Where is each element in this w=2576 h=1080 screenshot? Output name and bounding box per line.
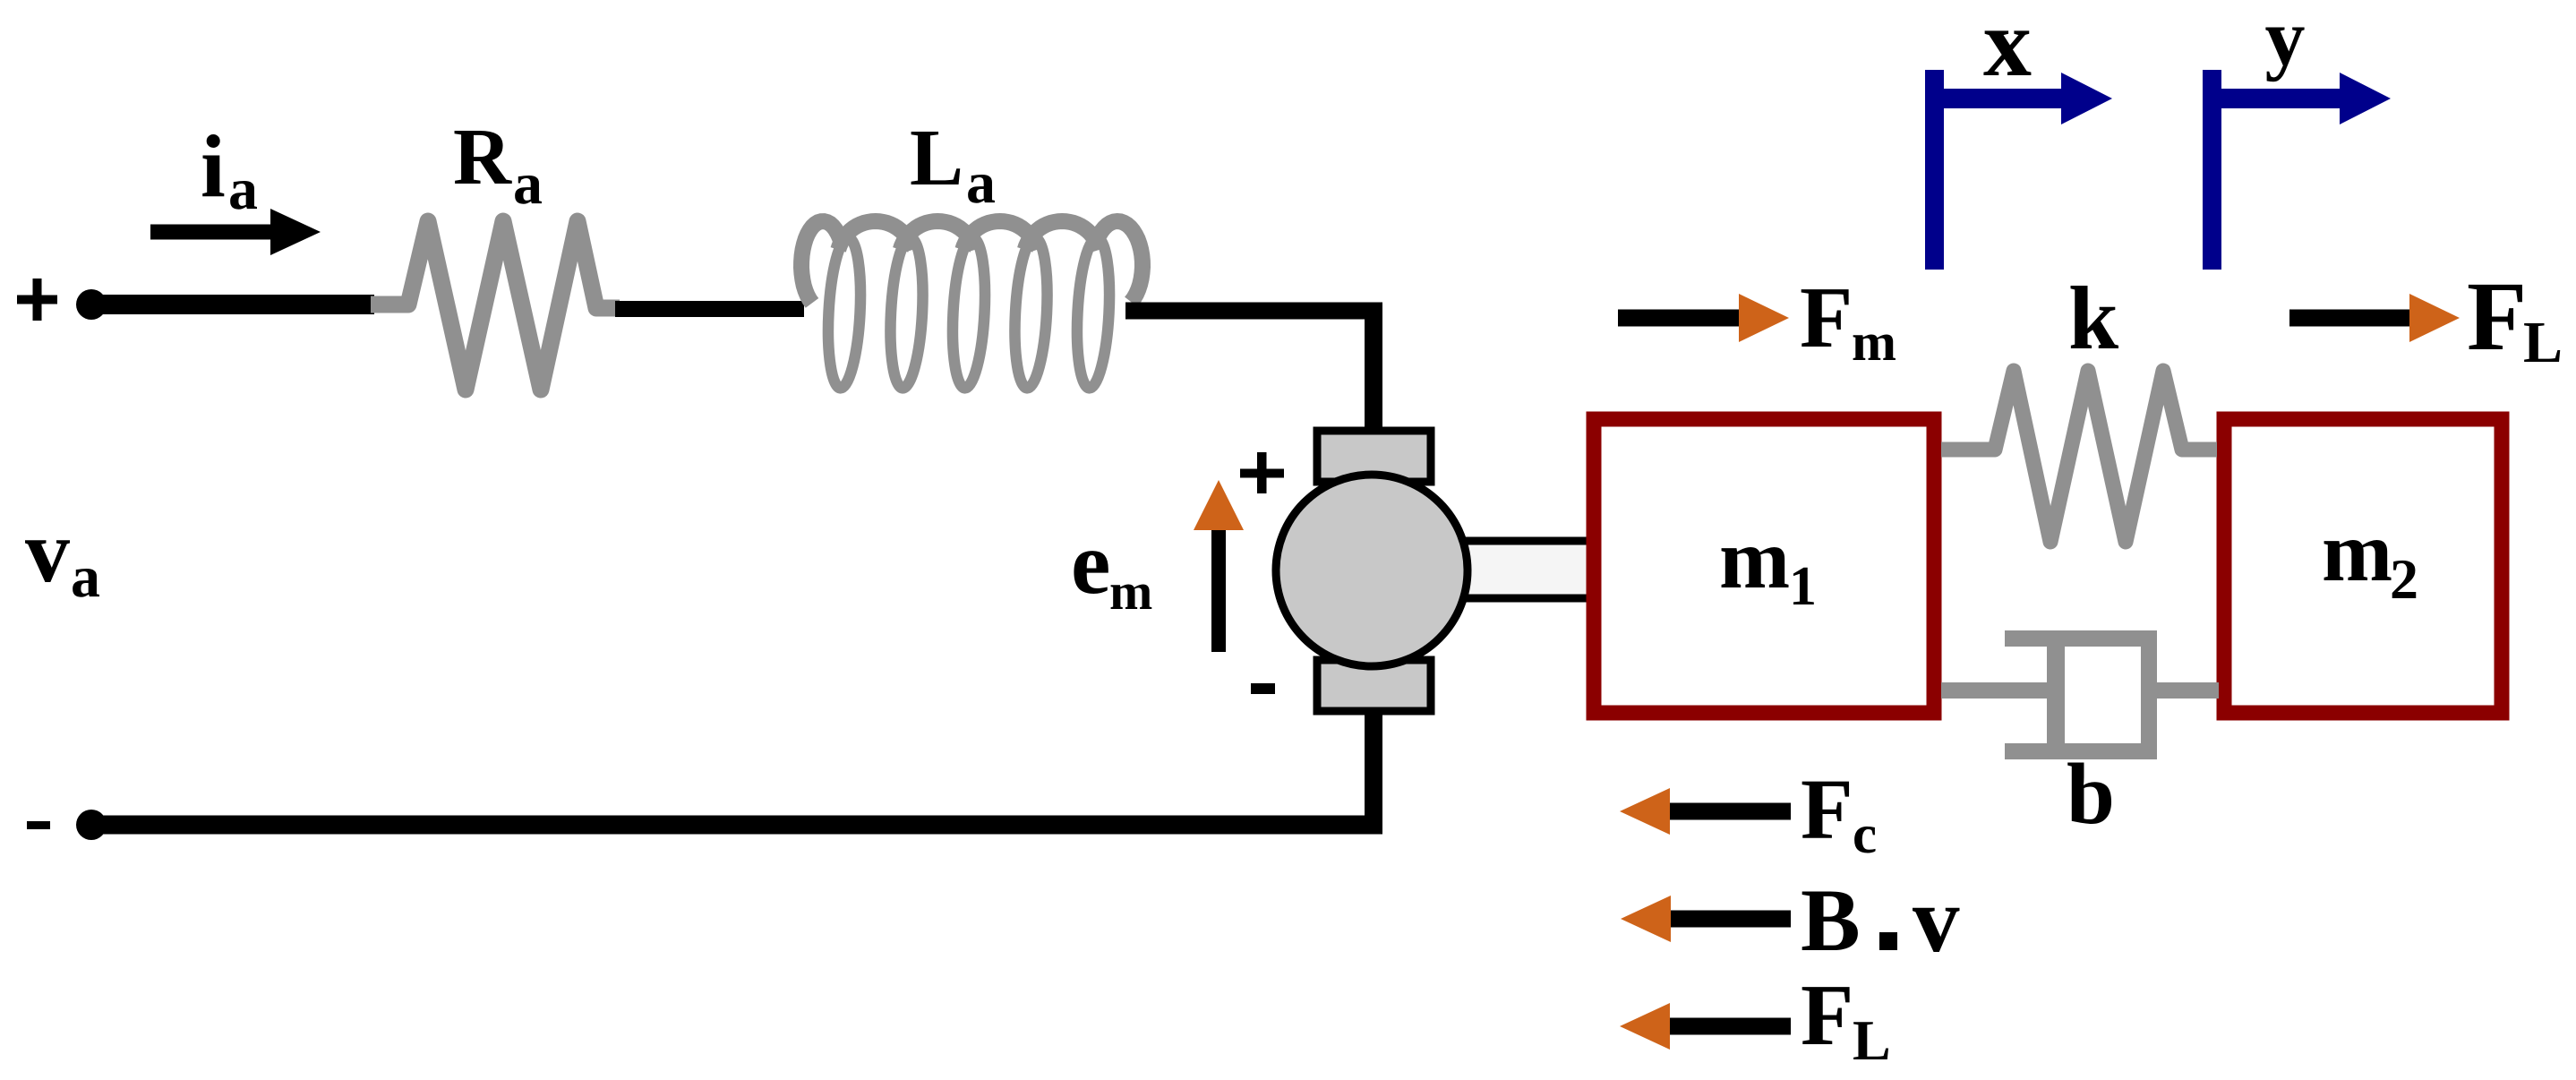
axis y xyxy=(2203,70,2391,270)
svg-text:a: a xyxy=(71,544,100,610)
damper b xyxy=(1941,630,2219,759)
svg-text:a: a xyxy=(228,157,258,222)
svg-text:2: 2 xyxy=(2390,547,2418,611)
svg-text:m: m xyxy=(1852,313,1896,372)
svg-text:a: a xyxy=(966,150,996,216)
motor body (motor M) xyxy=(1276,475,1468,666)
svg-text:m: m xyxy=(1109,562,1152,621)
svg-text:i: i xyxy=(201,116,226,216)
svg-text:v: v xyxy=(1913,867,1960,972)
motor top terminal block xyxy=(1317,431,1431,482)
svg-text:L: L xyxy=(1853,1008,1891,1072)
svg-text:F: F xyxy=(1801,967,1853,1063)
svg-text:B: B xyxy=(1801,870,1861,970)
axis x xyxy=(1925,70,2112,270)
svg-text:k: k xyxy=(2068,268,2119,368)
svg-text:L: L xyxy=(2523,310,2563,375)
svg-text:y: y xyxy=(2265,0,2306,82)
svg-text:e: e xyxy=(1071,513,1110,613)
node B (bottom-left terminal dot) xyxy=(76,810,107,840)
mass m1 xyxy=(1594,419,1934,713)
wire: motor bottom lead xyxy=(1365,711,1382,833)
emf arrow e_m xyxy=(1194,480,1244,652)
wire: corner down to motor xyxy=(1365,304,1382,430)
label minus (motor emf) xyxy=(1251,683,1275,694)
terminal minus label xyxy=(27,821,50,829)
terminal plus label xyxy=(17,279,57,321)
motor bottom terminal block xyxy=(1317,660,1431,711)
svg-text:a: a xyxy=(513,151,543,217)
svg-text:m: m xyxy=(2322,504,2392,599)
wire: from L_a to top-right corner xyxy=(1125,303,1382,320)
svg-text:L: L xyxy=(910,114,963,202)
mass m2 xyxy=(2224,419,2502,713)
svg-text:v: v xyxy=(25,501,70,601)
force arrow F_L (bottom) xyxy=(1620,1003,1791,1050)
svg-text:F: F xyxy=(2467,261,2527,371)
svg-text:F: F xyxy=(1800,270,1853,365)
svg-text:b: b xyxy=(2067,746,2115,842)
wire: between R_a and L_a xyxy=(615,301,804,317)
svg-text:F: F xyxy=(1801,761,1853,857)
bottom wire xyxy=(91,816,1382,835)
shaft from motor to m1 xyxy=(1459,544,1592,595)
spring k xyxy=(1941,371,2217,542)
node A (top-left terminal dot) xyxy=(76,289,107,320)
label plus (motor emf) xyxy=(1240,452,1284,493)
svg-text:1: 1 xyxy=(1789,556,1817,617)
svg-text:x: x xyxy=(1983,0,2032,97)
force arrow B.v xyxy=(1621,896,1791,942)
svg-text:c: c xyxy=(1853,805,1877,865)
svg-text:R: R xyxy=(453,113,512,201)
force arrow F_L (top right) xyxy=(2289,294,2460,342)
current arrow i_a xyxy=(150,209,321,255)
force arrow F_c xyxy=(1620,788,1791,835)
wire: top-left from node to resistor xyxy=(91,295,374,314)
svg-text:m: m xyxy=(1719,511,1790,606)
inductor L_a xyxy=(801,221,1143,389)
resistor R_a xyxy=(371,221,620,390)
force arrow F_m xyxy=(1618,294,1789,342)
